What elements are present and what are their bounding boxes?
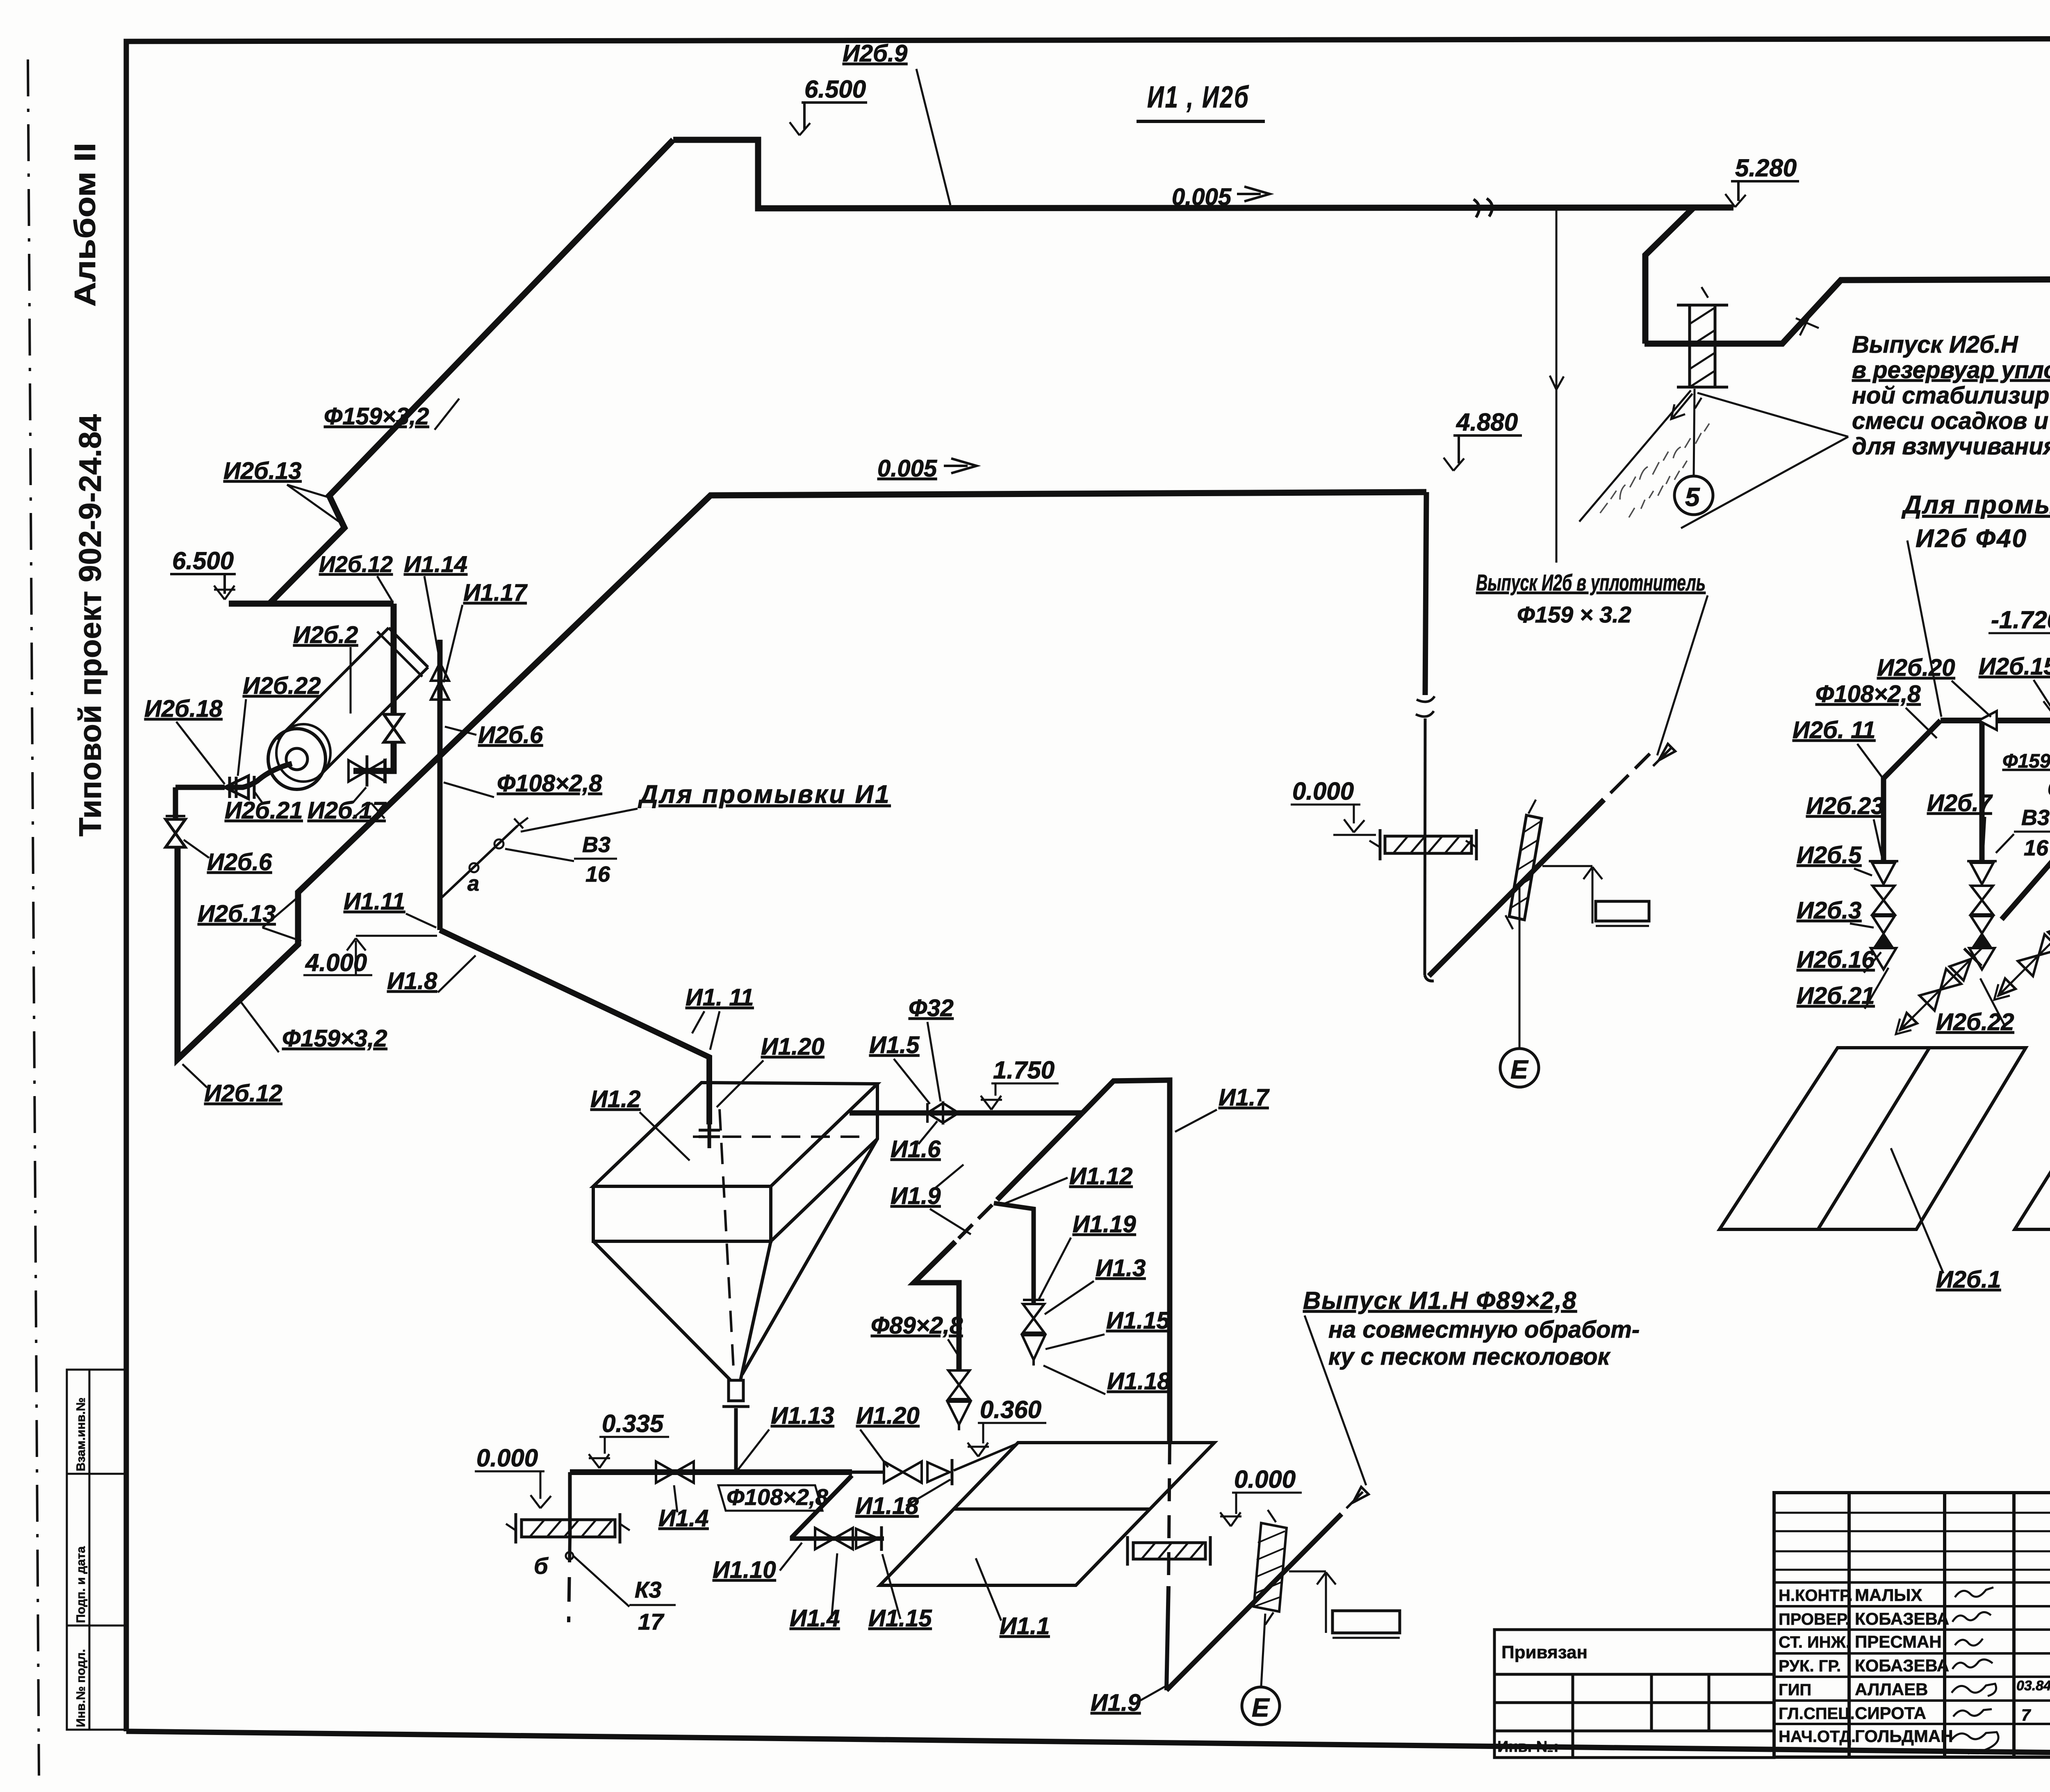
svg-text:И1.12: И1.12 [1069,1163,1133,1190]
arrow to sewer [1671,394,1692,419]
svg-text:б: б [534,1553,549,1579]
wire: drop at x3477 [1425,492,1426,695]
svg-text:4.000: 4.000 [305,949,367,976]
svg-text:АЛЛАЕВ: АЛЛАЕВ [1855,1680,1928,1699]
valve И1.5 [927,1103,959,1123]
floor slab hatched (И1.7) [1127,1536,1210,1566]
valve group И2б.19 [1990,899,2050,1004]
SECTION:PUMP [166,628,428,847]
funnel И1.15 [1022,1335,1045,1360]
vent И1.14 [431,663,449,681]
svg-text:Выпуск И2б в уплотнитель: Выпуск И2б в уплотнитель [1476,570,1706,595]
svg-text:ГЛ.СПЕЦ.: ГЛ.СПЕЦ. [1779,1705,1855,1723]
svg-text:а: а [467,872,479,896]
svg-text:И1.1: И1.1 [1000,1613,1050,1639]
svg-text:Выпуск И2б.Н: Выпуск И2б.Н [1852,331,2018,358]
svg-text:ГИП: ГИП [1779,1681,1811,1699]
pipe break symbol [1416,696,1435,716]
svg-text:И1.2: И1.2 [590,1086,640,1113]
svg-text:Подп. и дата: Подп. и дата [74,1546,88,1623]
pipe И2б.Н drop after 5.280 [1645,207,1694,344]
svg-text:0.335: 0.335 [602,1410,664,1437]
svg-text:Для промывки: Для промывки [1901,491,2050,519]
svg-text:Ф108×2,8: Ф108×2,8 [727,1484,829,1510]
valve stack И2б.5/3/16/21 [1869,861,1898,969]
svg-text:ПРОВЕР.: ПРОВЕР. [1779,1610,1850,1628]
svg-text:Ф89×2,8: Ф89×2,8 [871,1312,963,1339]
svg-text:И1.3: И1.3 [1096,1255,1146,1281]
pipe Для промывки И2б manifold [1941,718,2050,723]
elevation 6.500 (top) [790,103,867,135]
signature rows [1774,1582,2050,1724]
svg-text:И1.20: И1.20 [761,1033,825,1060]
svg-text:Альбом II: Альбом II [69,143,102,307]
svg-text:-1.720: -1.720 [1991,606,2050,634]
pipe И2б.9: 6.500 horizontal left [229,601,394,607]
svg-text:0.005: 0.005 [1172,184,1232,210]
svg-text:И1.14: И1.14 [404,551,467,577]
svg-text:Ф159×3,2: Ф159×3,2 [2002,750,2050,772]
elevation 0.360 [968,1423,1046,1457]
svg-text:6.500: 6.500 [172,547,234,575]
Привязан table [1494,1630,1774,1758]
svg-text:Е: Е [1510,1055,1529,1084]
svg-text:Инв. №:: Инв. №: [1497,1738,1559,1756]
pump И2б.2 body cylinder [277,628,389,739]
valve И1.4 [656,1461,694,1483]
pipe И1.7 riser [1082,1080,1170,1441]
wire: drop to node E [1519,885,1521,1049]
node E circle [1500,1049,1539,1087]
svg-text:И1.10: И1.10 [713,1557,776,1583]
svg-text:КОБАЗЕВА: КОБАЗЕВА [1855,1609,1949,1628]
node 5 circle [1674,476,1713,515]
svg-text:И1.4: И1.4 [658,1505,708,1532]
SECTION:BASINS [1720,1048,2050,1229]
wire: thin drop to node 5 [1694,389,1695,476]
flow arrow left [1979,711,1997,730]
elevation 5.280 [1725,181,1799,207]
svg-text:НАЧ.ОТД.: НАЧ.ОТД. [1779,1728,1856,1746]
node E drop (И1) [1261,1614,1265,1686]
SECTION:TBLOCK [1774,1493,2050,1757]
svg-text:И1.6: И1.6 [891,1136,941,1163]
pipe break symbol on top run [1474,198,1492,217]
valve on riser x960 [384,714,403,742]
pipe И1 riser [437,640,443,930]
svg-text:Ф32: Ф32 [909,995,954,1021]
branch И1.10 [792,1475,884,1539]
tank funnel [593,1139,877,1380]
basin И1.1 [880,1443,1214,1585]
leader from sewer line to node 5 drop [1579,390,1691,522]
svg-text:И2б.13: И2б.13 [198,901,276,927]
signature row labels [1779,1587,1856,1746]
valve И2б.6 (left riser) [166,819,185,847]
svg-text:И1.13: И1.13 [771,1402,834,1429]
elevation 0.335 [589,1437,669,1468]
svg-text:И1.18: И1.18 [1107,1368,1171,1395]
pump И2б.2 face ellipse [268,729,326,789]
svg-text:в резервуар уплотнен-: в резервуар уплотнен- [1852,357,2050,383]
vent И1.17 [431,682,449,700]
svg-text:Выпуск И1.Н Ф89×2,8: Выпуск И1.Н Ф89×2,8 [1303,1287,1577,1314]
svg-text:И2б Ф40: И2б Ф40 [1916,524,2027,553]
svg-text:Для промывки И1: Для промывки И1 [638,780,891,809]
svg-text:И2б.21: И2б.21 [1797,983,1875,1009]
signatures squiggles [1952,1587,1998,1753]
title block main frame [1774,1493,2050,1757]
svg-text:на совместную обработ-: на совместную обработ- [1328,1316,1640,1343]
inlet flanges И1.20 [699,1129,720,1132]
svg-text:И2б.6: И2б.6 [207,849,272,875]
svg-text:Ф159 × 3.2: Ф159 × 3.2 [1517,602,1631,627]
svg-text:И2б.16: И2б.16 [1797,946,1875,973]
svg-text:Ф159×3,2: Ф159×3,2 [324,403,429,430]
left dash-dot trim line [28,59,39,1776]
SECTION:I19 [914,1113,1082,1430]
svg-text:И1.18: И1.18 [855,1493,919,1519]
svg-text:И2б.7: И2б.7 [1927,790,1993,816]
elevation -1.720 [1988,633,2050,714]
svg-text:И2б. 11: И2б. 11 [1793,717,1875,743]
svg-text:И2б.22: И2б.22 [243,673,321,699]
svg-text:03.84: 03.84 [2016,1678,2050,1694]
svg-text:И2б.12: И2б.12 [204,1080,282,1107]
SECTION:RISER [431,640,528,930]
pipe И1 feed diagonal to tank [440,930,709,1124]
svg-text:6.500: 6.500 [804,75,866,103]
svg-text:Ф108×2,8: Ф108×2,8 [1815,681,1921,707]
basin И2б.1 left [1720,1048,2026,1229]
valves И1.20 / И1.18 right [884,1461,922,1483]
svg-text:МАЛЫХ: МАЛЫХ [1855,1585,1922,1605]
svg-text:Ф108×2,8: Ф108×2,8 [497,770,602,797]
pipe И1 main bottom run [570,1469,852,1475]
svg-text:И1.9: И1.9 [891,1183,941,1209]
floor slab hatched (И2б) [1369,829,1476,860]
svg-text:СТ. ИНЖ.: СТ. ИНЖ. [1779,1633,1850,1651]
pencil scribble хоз.фек.канализация [1596,415,1722,532]
svg-text:И1.11: И1.11 [344,888,405,915]
svg-text:смеси осадков и фугата: смеси осадков и фугата [1852,408,2050,434]
svg-text:И2б.18: И2б.18 [144,695,223,722]
svg-text:И1.17: И1.17 [463,579,528,606]
svg-text:И1. 11: И1. 11 [686,984,754,1011]
wire outlet drop [734,1408,738,1470]
svg-text:РУК. ГР.: РУК. ГР. [1779,1657,1841,1675]
svg-text:И1.8: И1.8 [387,968,437,994]
svg-text:И2б.23: И2б.23 [1806,793,1884,819]
outfall level line and box (И1) [1289,1571,1400,1638]
svg-text:И1.20: И1.20 [856,1402,920,1429]
elevation 1.750 [981,1083,1059,1110]
basin И2б.1 right [2015,1048,2050,1229]
svg-text:Н.КОНТР.: Н.КОНТР. [1779,1587,1853,1605]
svg-text:5: 5 [1685,482,1700,512]
riser И2б.11 [1884,720,1941,861]
svg-text:Типовой проект 902-9-24.84: Типовой проект 902-9-24.84 [73,414,108,837]
outfall level line and box [1542,866,1649,926]
valve stack И2б.7 [1967,861,1997,969]
valve group И2б.22 [1892,933,1997,1038]
SECTION:TANK [440,930,1170,1690]
svg-text:0.000: 0.000 [1234,1466,1296,1493]
riser И2б.7 [1979,720,1985,861]
svg-text:И1.7: И1.7 [1219,1084,1270,1111]
pipe И1.6 overflow [850,1110,1082,1116]
pipe to left wall [175,785,225,790]
svg-text:1.750: 1.750 [993,1056,1055,1084]
leader from Выпуск И2б.Н text [1681,393,1848,528]
wire: riser below valve to pump discharge [353,743,394,771]
outlet fitting И1.8 [729,1380,743,1401]
pipe И2б.21 diagonal (upper) [2002,516,2050,919]
svg-text:И2б.5: И2б.5 [1797,842,1862,869]
svg-text:Ф159×3,2: Ф159×3,2 [282,1025,387,1052]
svg-text:И2б.1: И2б.1 [1936,1266,2001,1293]
funnel hidden centerline [720,1109,734,1376]
svg-text:И2б.6: И2б.6 [478,722,543,748]
svg-text:КОБАЗЕВА: КОБАЗЕВА [1855,1656,1949,1675]
svg-text:И1 , И2б: И1 , И2б [1147,80,1250,114]
SECTION:BOTTOM [566,1444,1016,1622]
pipe: top run 6.500 to 0.005 slope [673,140,1733,208]
svg-text:ку с песком песколовок: ку с песком песколовок [1328,1343,1611,1370]
svg-text:0.005: 0.005 [877,455,937,482]
svg-text:для взмучивания Ф57×2.0: для взмучивания Ф57×2.0 [1852,433,2050,460]
svg-text:17: 17 [638,1609,665,1635]
wire К3 drop [568,1472,572,1538]
svg-text:СИРОТА: СИРОТА [1855,1703,1926,1723]
svg-text:Инв.№ подл.: Инв.№ подл. [74,1649,88,1727]
branch И1.12 [994,1203,1034,1303]
tank band walls [593,1084,877,1241]
svg-text:И2б.9: И2б.9 [843,40,907,67]
svg-text:Е: Е [1252,1693,1270,1722]
svg-text:В3: В3 [2021,805,2050,830]
svg-text:0.000: 0.000 [476,1444,538,1472]
elevation 4.880 [1444,435,1522,471]
pipe И2б main: left riser to 4.880 run [178,492,1426,1059]
SECTION:P1 [229,140,2050,771]
datum 0.000 (left) [475,1471,551,1508]
tank И1.2 top rim [593,1083,877,1186]
svg-text:И2б.3: И2б.3 [1797,897,1861,924]
tank И1.2 hidden rim edge [693,1135,870,1138]
reducer И2б.18 [225,776,248,799]
valve on И1.9 drop [948,1370,970,1399]
svg-text:0.000: 0.000 [1292,777,1354,805]
svg-text:ПРЕСМАН: ПРЕСМАН [1855,1632,1942,1651]
svg-text:16: 16 [585,862,610,887]
valve И2б.17 on discharge [348,760,385,782]
pipe И2б.9 long diagonal with jog (И2б.13) [269,140,673,604]
svg-text:0.360: 0.360 [980,1396,1041,1423]
svg-text:И1.5: И1.5 [869,1032,920,1058]
datum 4.000 [303,936,437,975]
svg-text:И1.15: И1.15 [1106,1307,1170,1334]
elevation 6.500 (left) [170,574,236,600]
svg-text:Взам.инв.№: Взам.инв.№ [74,1398,88,1471]
pipe И1.9 down from И1.6 corner [997,1113,1082,1200]
wire: thin drop from top run [1556,210,1558,563]
svg-text:И2б.13: И2б.13 [223,458,302,484]
svg-text:И2б.12: И2б.12 [319,551,393,577]
svg-text:б: б [2048,777,2050,800]
svg-text:Привязан: Привязан [1501,1642,1588,1662]
valve И1.3 [1023,1304,1044,1333]
svg-text:И1.19: И1.19 [1073,1211,1136,1238]
pump suction curved pipe [230,764,292,787]
wire: corner down at x428 [173,787,178,819]
svg-text:И2б.20: И2б.20 [1877,654,1955,681]
wall crossing hatched sleeve (slanted) [1506,800,1542,929]
suction flanges [228,777,231,798]
svg-text:И2б.15: И2б.15 [1979,653,2050,680]
SECTION:OUTFALL [1166,1487,1369,1690]
svg-text:И2б.2: И2б.2 [293,622,358,648]
svg-text:И2б.21: И2б.21 [225,797,303,824]
svg-text:5.280: 5.280 [1735,154,1797,182]
pipe break tick on diagonal [1796,311,1819,335]
datum 0.000 (И2б) [1291,805,1376,835]
floor slab hatched (К3) [506,1513,630,1543]
svg-text:7: 7 [2021,1706,2031,1724]
svg-text:ной стабилизированной: ной стабилизированной [1852,382,2050,409]
svg-text:В3: В3 [582,832,610,857]
wall sleeve on outfall [1254,1510,1287,1625]
svg-text:4.880: 4.880 [1456,408,1518,436]
svg-text:К3: К3 [635,1577,662,1603]
node a stub line [442,826,517,897]
svg-text:ГОЛЬДМАН: ГОЛЬДМАН [1855,1726,1953,1746]
wall crossing hatched sleeve at x4150 [1677,287,1728,408]
svg-text:16: 16 [2024,836,2049,860]
datum 0.000 (right) [1220,1493,1302,1526]
small top rows [1774,1513,2050,1570]
pipe outfall diagonal (И2б to уплотнитель) [1429,744,1675,976]
wire: riser at x960 down to valve [391,604,397,714]
svg-text:И1.9: И1.9 [1091,1689,1141,1716]
left stamp table (rotated labels) [67,1370,126,1730]
pipe И1.9 outfall diagonal [1166,1514,1342,1690]
